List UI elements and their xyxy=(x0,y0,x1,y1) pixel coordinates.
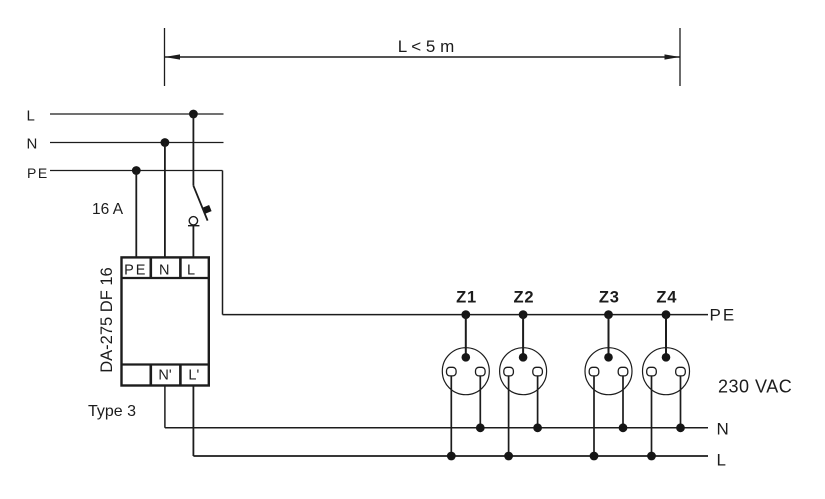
wire Z1 right pin to N bus xyxy=(479,376,481,428)
terminal divider N|L top xyxy=(179,257,182,278)
junction Z3 N xyxy=(619,423,628,432)
junction Z4 PE xyxy=(662,310,671,319)
junction Z1 N xyxy=(476,423,485,432)
wire L feed xyxy=(50,113,224,115)
wire L bus xyxy=(193,455,708,457)
svg-text:N': N' xyxy=(158,367,171,383)
terminal divider bottom left xyxy=(150,365,153,386)
wire PE feed xyxy=(50,170,223,172)
breaker thermal release square xyxy=(203,205,212,214)
wire N drop to terminal xyxy=(164,143,166,259)
dimension line L<5m xyxy=(165,56,681,58)
wire L drop to breaker xyxy=(192,114,194,186)
socket Z4 body xyxy=(643,348,690,395)
junction Z1 L xyxy=(447,452,456,461)
dimension arrow right xyxy=(665,54,681,59)
svg-text:L: L xyxy=(27,108,35,125)
svg-text:230 VAC: 230 VAC xyxy=(718,377,792,397)
terminal divider PE|N top xyxy=(150,257,153,278)
terminal divider bottom right xyxy=(179,365,182,386)
svg-text:N: N xyxy=(717,420,729,439)
svg-text:PE: PE xyxy=(710,306,737,325)
Z2 left pin xyxy=(504,367,514,376)
junction Z3 L xyxy=(590,452,599,461)
svg-text:PE: PE xyxy=(27,165,49,181)
wire contact to L terminal xyxy=(192,226,194,259)
socket Z1 xyxy=(442,289,489,461)
wire Z2 right pin to N bus xyxy=(537,376,539,428)
wire PE bus to sockets xyxy=(223,314,709,316)
wire N feed xyxy=(50,142,224,144)
breaker contact seat line xyxy=(188,225,199,227)
junction N xyxy=(161,138,170,147)
wire Z1 left pin to L bus xyxy=(450,376,452,456)
Z1 PE contact xyxy=(462,353,471,362)
svg-text:DA-275 DF 16: DA-275 DF 16 xyxy=(98,267,116,372)
svg-text:L < 5 m: L < 5 m xyxy=(398,37,455,56)
Z4 left pin xyxy=(647,367,657,376)
junction Z2 N xyxy=(533,423,542,432)
svg-text:Z2: Z2 xyxy=(513,289,534,307)
wire Z4 left pin to L bus xyxy=(651,376,653,456)
wire PE drop to terminal xyxy=(135,171,137,259)
dimension arrow left xyxy=(165,54,181,59)
dimension extension line right xyxy=(679,28,681,86)
svg-text:Z1: Z1 xyxy=(456,289,477,307)
wire Z4 PE pin xyxy=(665,315,667,358)
Z3 right pin xyxy=(618,367,628,376)
breaker switch blade xyxy=(193,186,207,221)
socket Z1 body xyxy=(442,348,489,395)
svg-text:16 A: 16 A xyxy=(92,201,124,218)
wire N' drop xyxy=(164,386,166,428)
junction Z4 N xyxy=(676,423,685,432)
terminal row top separator xyxy=(122,277,209,279)
terminal row bottom separator xyxy=(122,363,209,365)
wire N bus xyxy=(165,427,708,429)
wire L' drop xyxy=(192,386,194,457)
Z2 right pin xyxy=(533,367,543,376)
junction Z2 PE xyxy=(519,310,528,319)
svg-text:Type 3: Type 3 xyxy=(88,403,136,420)
breaker fixed contact circle xyxy=(189,217,197,225)
dimension extension line left xyxy=(164,28,166,86)
Z2 PE contact xyxy=(519,353,528,362)
device outline DA-275 DF 16 xyxy=(122,257,209,385)
junction Z2 L xyxy=(504,452,513,461)
Z1 left pin xyxy=(447,367,457,376)
svg-text:L: L xyxy=(717,451,726,470)
wire Z2 left pin to L bus xyxy=(508,376,510,456)
wire Z2 PE pin xyxy=(522,315,524,358)
svg-text:Z4: Z4 xyxy=(656,289,677,307)
junction Z4 L xyxy=(647,452,656,461)
socket Z4 xyxy=(643,289,690,461)
wire Z3 left pin to L bus xyxy=(593,376,595,456)
svg-text:PE: PE xyxy=(124,263,147,279)
wire PE branch down right side xyxy=(222,171,224,315)
svg-text:Z3: Z3 xyxy=(599,289,620,307)
svg-text:L': L' xyxy=(188,367,199,383)
Z3 left pin xyxy=(589,367,599,376)
wire Z4 right pin to N bus xyxy=(680,376,682,428)
junction Z1 PE xyxy=(461,310,470,319)
wire Z1 PE pin xyxy=(465,315,467,358)
junction L xyxy=(189,110,198,119)
Z4 right pin xyxy=(676,367,686,376)
socket Z2 body xyxy=(500,348,547,395)
Z1 right pin xyxy=(476,367,486,376)
junction Z3 PE xyxy=(604,310,613,319)
wire Z3 PE pin xyxy=(608,315,610,358)
socket Z2 xyxy=(500,289,547,461)
svg-text:L: L xyxy=(187,263,195,279)
svg-text:N: N xyxy=(27,136,38,153)
wire Z3 right pin to N bus xyxy=(622,376,624,428)
socket Z3 xyxy=(585,289,632,461)
Z3 PE contact xyxy=(604,353,613,362)
svg-text:N: N xyxy=(159,263,169,279)
junction PE xyxy=(132,166,141,175)
Z4 PE contact xyxy=(662,353,671,362)
socket Z3 body xyxy=(585,348,632,395)
